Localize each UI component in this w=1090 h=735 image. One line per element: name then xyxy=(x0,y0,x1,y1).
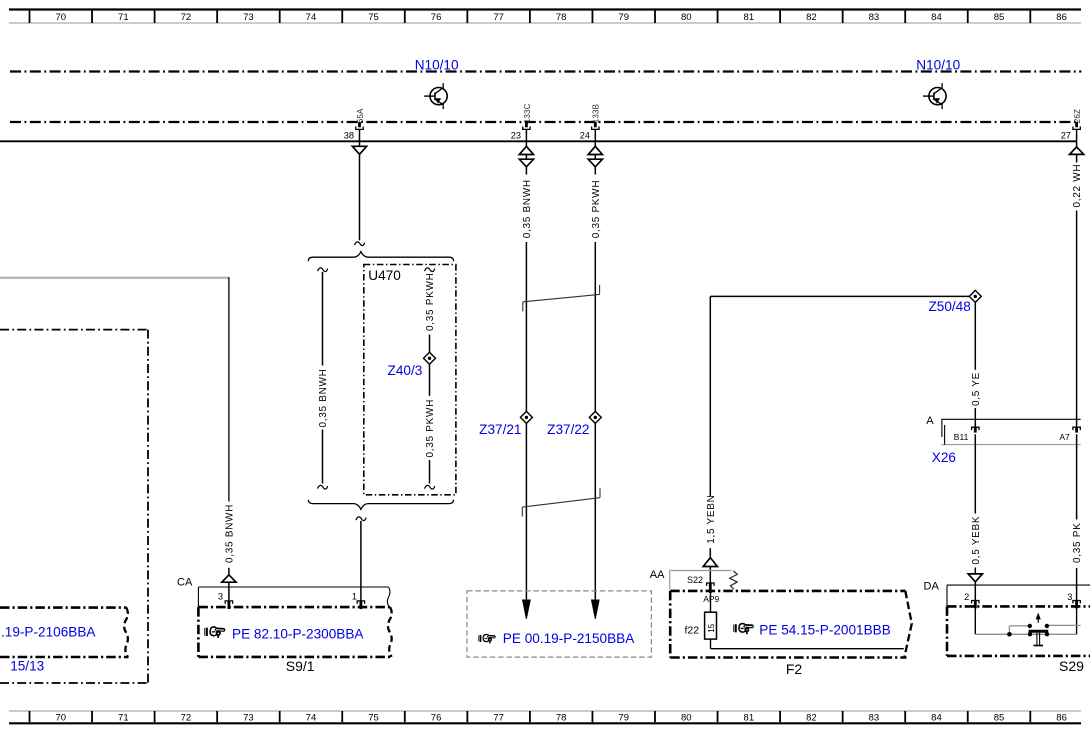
svg-text:81: 81 xyxy=(744,12,755,23)
svg-text:N10/10: N10/10 xyxy=(415,58,459,73)
svg-text:AP9: AP9 xyxy=(703,594,719,604)
svg-text:82: 82 xyxy=(806,12,817,23)
svg-text:77: 77 xyxy=(493,712,504,723)
svg-text:84: 84 xyxy=(931,712,942,723)
svg-text:84: 84 xyxy=(931,12,942,23)
svg-text:80: 80 xyxy=(681,712,692,723)
svg-text:0,35 PKWH: 0,35 PKWH xyxy=(425,272,436,331)
svg-text:Z50/48: Z50/48 xyxy=(928,299,970,314)
svg-text:72: 72 xyxy=(181,712,192,723)
svg-text:83: 83 xyxy=(869,712,880,723)
svg-text:f22: f22 xyxy=(685,625,700,637)
svg-text:133C: 133C xyxy=(523,103,532,123)
svg-text:86: 86 xyxy=(1056,12,1067,23)
svg-text:X26: X26 xyxy=(932,450,956,465)
svg-text:A: A xyxy=(926,415,934,427)
svg-text:85: 85 xyxy=(994,712,1005,723)
svg-text:S22: S22 xyxy=(687,575,703,585)
svg-text:76: 76 xyxy=(431,12,442,23)
svg-text:76: 76 xyxy=(431,712,442,723)
svg-text:23: 23 xyxy=(511,130,521,140)
svg-text:15: 15 xyxy=(707,623,716,632)
svg-text:3: 3 xyxy=(1067,592,1072,602)
svg-text:U470: U470 xyxy=(368,268,401,283)
svg-text:PE 00.19-P-2150BBA: PE 00.19-P-2150BBA xyxy=(503,631,635,646)
svg-text:83: 83 xyxy=(869,12,880,23)
svg-text:77: 77 xyxy=(493,12,504,23)
svg-text:65A: 65A xyxy=(356,108,365,123)
svg-text:1: 1 xyxy=(352,592,357,602)
svg-text:71: 71 xyxy=(118,712,129,723)
svg-text:0,35 PKWH: 0,35 PKWH xyxy=(425,399,436,458)
svg-text:70: 70 xyxy=(55,12,66,23)
svg-text:Z37/22: Z37/22 xyxy=(547,422,589,437)
svg-text:Z37/21: Z37/21 xyxy=(479,422,521,437)
svg-text:73: 73 xyxy=(243,12,254,23)
svg-text:85: 85 xyxy=(994,12,1005,23)
svg-text:71: 71 xyxy=(118,12,129,23)
svg-text:F2: F2 xyxy=(786,661,803,677)
svg-text:CA: CA xyxy=(177,577,193,589)
svg-text:PE 82.10-P-2300BBA: PE 82.10-P-2300BBA xyxy=(232,627,364,642)
svg-text:B11: B11 xyxy=(954,432,969,442)
svg-text:A7: A7 xyxy=(1059,432,1070,442)
svg-text:0,5 YEBK: 0,5 YEBK xyxy=(971,516,982,565)
svg-text:0,22 WH: 0,22 WH xyxy=(1072,164,1083,208)
svg-text:24: 24 xyxy=(580,130,590,140)
svg-text:80: 80 xyxy=(681,12,692,23)
svg-text:74: 74 xyxy=(306,12,317,23)
svg-text:72: 72 xyxy=(181,12,192,23)
svg-text:N10/10: N10/10 xyxy=(916,58,960,73)
svg-text:.19-P-2106BBA: .19-P-2106BBA xyxy=(1,624,96,639)
svg-text:78: 78 xyxy=(556,12,567,23)
svg-text:0,35 PKWH: 0,35 PKWH xyxy=(591,180,602,239)
svg-text:74: 74 xyxy=(306,712,317,723)
svg-text:Z40/3: Z40/3 xyxy=(388,363,423,378)
svg-text:75: 75 xyxy=(368,712,379,723)
svg-text:0,35 BNWH: 0,35 BNWH xyxy=(522,179,533,238)
svg-text:86: 86 xyxy=(1056,712,1067,723)
svg-text:DA: DA xyxy=(924,581,940,593)
svg-text:S29: S29 xyxy=(1059,658,1084,674)
svg-text:PE 54.15-P-2001BBB: PE 54.15-P-2001BBB xyxy=(759,623,891,638)
svg-text:73: 73 xyxy=(243,712,254,723)
svg-text:AA: AA xyxy=(650,569,665,581)
svg-text:3: 3 xyxy=(218,592,223,602)
svg-text:82: 82 xyxy=(806,712,817,723)
svg-text:78: 78 xyxy=(556,712,567,723)
svg-text:15/13: 15/13 xyxy=(10,659,44,674)
svg-text:26Z: 26Z xyxy=(1073,109,1082,123)
svg-text:27: 27 xyxy=(1061,130,1071,140)
svg-text:0,35 BNWH: 0,35 BNWH xyxy=(225,504,236,563)
svg-text:79: 79 xyxy=(618,12,629,23)
svg-text:133B: 133B xyxy=(592,104,601,123)
svg-text:2: 2 xyxy=(964,592,969,602)
svg-text:0,35 BNWH: 0,35 BNWH xyxy=(318,368,329,427)
svg-text:1,5 YEBN: 1,5 YEBN xyxy=(706,494,717,543)
svg-text:38: 38 xyxy=(344,130,354,140)
svg-text:79: 79 xyxy=(618,712,629,723)
svg-text:75: 75 xyxy=(368,12,379,23)
svg-text:81: 81 xyxy=(744,712,755,723)
svg-text:70: 70 xyxy=(55,712,66,723)
svg-text:S9/1: S9/1 xyxy=(286,658,315,674)
svg-text:0,35 PK: 0,35 PK xyxy=(1072,523,1083,563)
svg-text:0,5 YE: 0,5 YE xyxy=(971,372,982,406)
